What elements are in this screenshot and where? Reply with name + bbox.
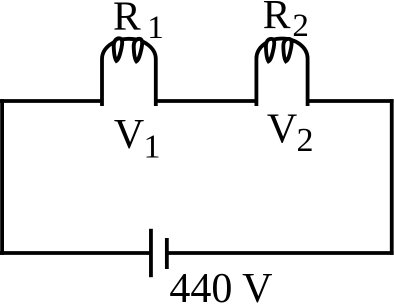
wire: top side, left segment (0, 99, 102, 103)
battery: short plate (negative) (165, 238, 169, 269)
wire: bottom side, right segment from battery (167, 251, 394, 255)
wire: left side (0, 99, 4, 255)
resistor R1 coil loop a (114, 38, 122, 60)
svg-text:1: 1 (147, 10, 164, 46)
svg-text:2: 2 (292, 8, 309, 44)
svg-text:1: 1 (144, 129, 161, 166)
svg-text:2: 2 (297, 122, 314, 159)
resistor R1 coil hump (102, 39, 156, 106)
svg-text:R: R (263, 0, 291, 37)
svg-text:V: V (114, 112, 144, 158)
svg-text:R: R (113, 0, 141, 38)
wire: top side, middle segment between R1 and R2 (156, 99, 257, 103)
wire: right side (390, 99, 394, 255)
resistor R2 coil loop b (283, 39, 291, 61)
svg-text:V: V (267, 106, 297, 152)
battery: long plate (positive) (149, 229, 153, 277)
svg-text:440 V: 440 V (169, 266, 272, 304)
resistor R2 coil loop a (266, 39, 274, 61)
wire: bottom side, left segment to battery (0, 251, 150, 255)
resistor R2 coil hump (256, 38, 307, 106)
wire: top side, right segment (308, 99, 394, 103)
resistor R1 coil loop b (134, 39, 142, 61)
